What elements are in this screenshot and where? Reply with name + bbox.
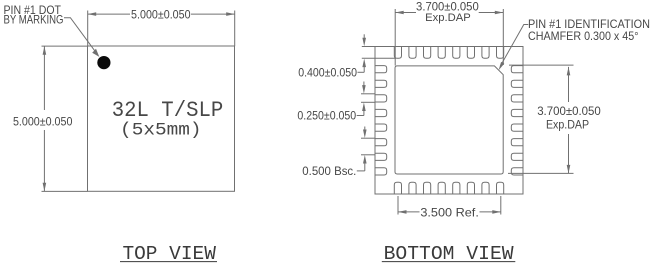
svg-text:Exp.DAP: Exp.DAP: [546, 120, 589, 132]
svg-text:Exp.DAP: Exp.DAP: [425, 12, 471, 24]
svg-text:3.700±0.050: 3.700±0.050: [537, 104, 601, 118]
svg-text:5.000±0.050: 5.000±0.050: [13, 114, 73, 128]
svg-text:0.400±0.050: 0.400±0.050: [298, 65, 357, 79]
svg-text:(5x5mm): (5x5mm): [120, 121, 202, 141]
svg-text:5.000±0.050: 5.000±0.050: [131, 8, 191, 22]
svg-text:BY MARKING: BY MARKING: [4, 13, 64, 27]
svg-text:0.250±0.050: 0.250±0.050: [297, 109, 356, 123]
svg-text:32L T/SLP: 32L T/SLP: [112, 98, 224, 123]
svg-text:0.500 Bsc.: 0.500 Bsc.: [302, 164, 356, 178]
svg-text:3.500 Ref.: 3.500 Ref.: [420, 205, 479, 219]
svg-text:CHAMFER 0.300 x 45°: CHAMFER 0.300 x 45°: [528, 29, 639, 43]
